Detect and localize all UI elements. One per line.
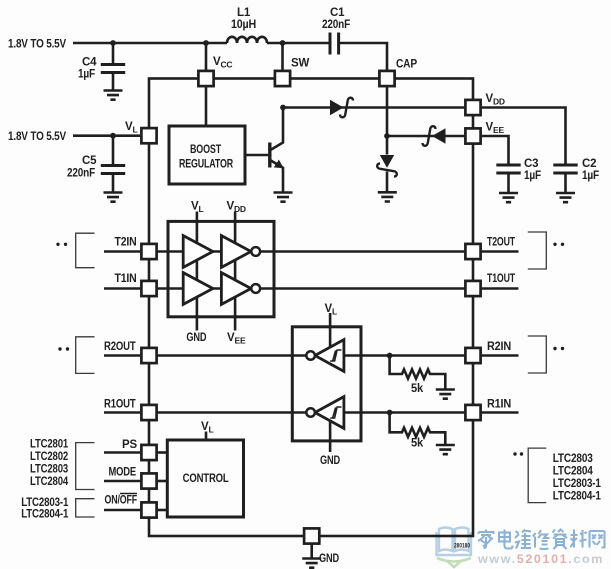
wire R2OUT stub — [104, 354, 140, 357]
bracket R2OUT group — [76, 337, 95, 374]
pin CAP — [379, 71, 394, 86]
pin SW — [275, 71, 290, 86]
svg-text:R2IN: R2IN — [487, 341, 511, 353]
svg-text:L1: L1 — [237, 7, 251, 19]
svg-text:1.8V TO 5.5V: 1.8V TO 5.5V — [8, 39, 66, 51]
svg-text:LTC2804: LTC2804 — [553, 466, 594, 478]
wire CAP to clamp — [386, 87, 389, 155]
bracket T2OUT group — [528, 232, 547, 269]
wire MODE stub — [104, 480, 140, 483]
receiver A5 R2 — [315, 340, 344, 372]
svg-text:GND: GND — [320, 455, 340, 467]
wire VCC to boost regulator — [205, 87, 208, 126]
receiver A6 R1 — [315, 397, 344, 429]
wire VEE to node — [387, 135, 464, 138]
wire boost to Q1 base — [245, 154, 268, 157]
wire T1 path through buffers — [158, 287, 465, 290]
svg-text:ON/OFF: ON/OFF — [105, 495, 138, 507]
wire R2 output — [158, 354, 307, 357]
bubble A6 — [306, 408, 315, 417]
switch squiggle D2 — [423, 126, 436, 146]
svg-text:LTC2803-1: LTC2803-1 — [553, 478, 602, 490]
wire R1IN stub — [482, 411, 519, 414]
wire VL rail — [73, 134, 140, 137]
svg-text:T1IN: T1IN — [115, 273, 137, 285]
wire PS to control — [158, 451, 168, 454]
wire MODE to control — [158, 480, 168, 483]
pin VL — [141, 128, 156, 143]
transistor Q1 — [268, 143, 271, 168]
svg-text:LTC2803: LTC2803 — [553, 453, 593, 465]
pin R1OUT — [141, 405, 156, 420]
wire T1IN stub — [104, 287, 140, 290]
svg-text:CAP: CAP — [396, 59, 417, 71]
wire VEE to C3 — [482, 136, 509, 165]
svg-text:1µF: 1µF — [582, 170, 599, 182]
watermark book icon — [437, 528, 472, 556]
block transmitter buffers — [168, 221, 274, 316]
ground C5 — [104, 193, 123, 202]
asterisks R2IN — [553, 347, 556, 350]
pin T1OUT — [465, 281, 480, 296]
node C4 tap — [110, 40, 116, 46]
svg-text:LTC2804: LTC2804 — [30, 476, 69, 488]
pin PS — [141, 445, 156, 460]
pin VCC — [198, 71, 213, 86]
wire T1OUT stub — [482, 287, 519, 290]
wire R1 input — [344, 411, 464, 414]
resistor 5k (R2) — [390, 356, 446, 389]
pin VEE — [465, 128, 480, 143]
pin R2IN — [465, 348, 480, 363]
block control — [167, 440, 243, 517]
node SW/collector — [280, 105, 286, 111]
svg-text:LTC2804-1: LTC2804-1 — [21, 509, 69, 521]
ground GND pin — [302, 559, 321, 568]
svg-text:MODE: MODE — [109, 467, 137, 479]
svg-text:BOOST: BOOST — [190, 144, 221, 156]
pin MODE — [141, 473, 156, 488]
ground 5k R2 — [436, 390, 455, 399]
svg-text:5k: 5k — [411, 438, 424, 450]
wire T2IN stub — [104, 250, 140, 253]
svg-text:T2OUT: T2OUT — [487, 237, 515, 249]
svg-text:1µF: 1µF — [524, 170, 541, 182]
hysteresis glyph A5 — [330, 350, 341, 361]
wire R2 input — [344, 354, 464, 357]
bracket LTC right list — [528, 448, 546, 503]
svg-text:220nF: 220nF — [67, 168, 95, 180]
buffer A3 T1 stage1 — [183, 273, 213, 305]
pin T1IN — [141, 281, 156, 296]
buffer A2 T2 stage2 — [221, 236, 251, 268]
pin GND — [304, 528, 319, 543]
wire VL stub (receiver) — [329, 313, 332, 350]
wire T2 path through buffers — [158, 250, 465, 253]
node R2 divider — [387, 353, 393, 359]
pin ON/OFF — [141, 502, 156, 517]
svg-text:LTC2802: LTC2802 — [30, 451, 68, 463]
svg-text:R1OUT: R1OUT — [104, 399, 136, 411]
capacitor C4 — [112, 43, 115, 63]
wire ON/OFF stub — [104, 509, 140, 512]
asterisks T2IN — [56, 243, 59, 246]
node C5 tap — [110, 133, 116, 139]
svg-text:LTC2804-1: LTC2804-1 — [553, 491, 602, 503]
pin VDD — [465, 100, 480, 115]
hysteresis glyph A6 — [330, 407, 341, 418]
svg-text:T2IN: T2IN — [115, 237, 137, 249]
svg-text:LTC2803-1: LTC2803-1 — [21, 497, 69, 509]
svg-text:LTC2801: LTC2801 — [30, 439, 69, 451]
wire SW node to VDD — [283, 106, 464, 109]
svg-text:10µH: 10µH — [231, 19, 256, 31]
svg-text:T1OUT: T1OUT — [487, 273, 515, 285]
wire VDD/VEE supply (buffer) — [234, 212, 237, 331]
capacitor C2 — [553, 165, 577, 173]
svg-text:www.520101.com: www.520101.com — [477, 554, 604, 566]
svg-text:C3: C3 — [524, 158, 538, 170]
bracket R2IN group — [528, 336, 547, 373]
node VCC tap — [203, 40, 209, 46]
svg-text:1.8V TO 5.5V: 1.8V TO 5.5V — [8, 131, 66, 143]
pin T2IN — [141, 244, 156, 259]
pin R1IN — [465, 405, 480, 420]
ground 5k R1 — [436, 445, 455, 454]
wire top rail — [73, 43, 387, 70]
svg-text:GND: GND — [186, 332, 206, 344]
svg-text:280180: 280180 — [454, 543, 470, 550]
svg-text:REGULATOR: REGULATOR — [179, 159, 234, 171]
capacitor C1 — [330, 33, 339, 55]
wire VDD to C2 — [482, 108, 566, 165]
svg-text:LTC2803: LTC2803 — [30, 464, 68, 476]
ground C4 — [104, 91, 123, 100]
resistor 5k (R1) — [390, 413, 446, 445]
bubble A5 — [306, 351, 315, 360]
ground D3 — [378, 192, 397, 201]
buffer A4 T1 stage2 — [221, 273, 251, 305]
wire VCC branch — [205, 43, 208, 70]
capacitor C3 — [496, 165, 520, 173]
wire VL stub (control) — [205, 432, 208, 441]
block boost regulator — [169, 126, 245, 184]
ground Q1 emitter — [274, 193, 293, 202]
node R1 divider — [387, 410, 393, 416]
inductor L1 — [227, 37, 267, 43]
asterisks T2OUT — [553, 243, 556, 246]
diode D1 to VDD — [330, 100, 344, 115]
bracket LTC2801-2804 (left) — [76, 443, 95, 490]
buffer A1 T2 stage1 — [183, 236, 213, 268]
svg-text:R1IN: R1IN — [487, 399, 511, 411]
capacitor C5 — [112, 136, 115, 165]
wire ON/OFF to control — [158, 509, 168, 512]
IC boundary — [149, 79, 473, 537]
wire R2IN stub — [482, 354, 519, 357]
pin R2OUT — [141, 348, 156, 363]
bracket LTC2803-1/2804-1 (left) — [76, 499, 95, 517]
watermark chinese text — [478, 530, 605, 550]
svg-text:5k: 5k — [411, 383, 424, 395]
diode D3 clamp — [380, 155, 394, 168]
node SW tap — [280, 40, 286, 46]
svg-text:GND: GND — [319, 553, 339, 565]
diode D2 from VEE — [432, 128, 446, 143]
pin GND stub — [310, 545, 313, 558]
switch squiggle D1 — [340, 98, 353, 118]
bubble A2 — [251, 247, 260, 256]
ground C2 — [556, 193, 575, 202]
bubble A4 — [251, 284, 260, 293]
asterisks right list — [513, 452, 516, 455]
wire VL supply (buffer) — [196, 212, 199, 331]
svg-text:1µF: 1µF — [78, 69, 95, 81]
svg-text:C1: C1 — [330, 7, 345, 19]
svg-text:C4: C4 — [82, 57, 97, 69]
svg-text:PS: PS — [122, 439, 137, 451]
svg-text:220nF: 220nF — [322, 19, 350, 31]
asterisks R2OUT — [58, 347, 61, 350]
svg-text:C2: C2 — [582, 158, 596, 170]
wire R1OUT stub — [104, 411, 140, 414]
wire R1 output — [158, 411, 307, 414]
ground C3 — [499, 193, 518, 202]
wire PS stub — [104, 451, 140, 454]
wire GND stub (receiver) — [329, 418, 332, 452]
wire T2OUT stub — [482, 250, 519, 253]
node CAP/VEE — [384, 133, 390, 139]
svg-text:CONTROL: CONTROL — [183, 473, 229, 485]
wire SW branch — [281, 43, 284, 70]
svg-text:R2OUT: R2OUT — [104, 341, 136, 353]
pin T2OUT — [465, 244, 480, 259]
svg-text:C5: C5 — [82, 155, 97, 167]
svg-text:SW: SW — [291, 58, 309, 70]
bracket T2IN group — [76, 233, 95, 268]
block receivers — [292, 327, 361, 441]
